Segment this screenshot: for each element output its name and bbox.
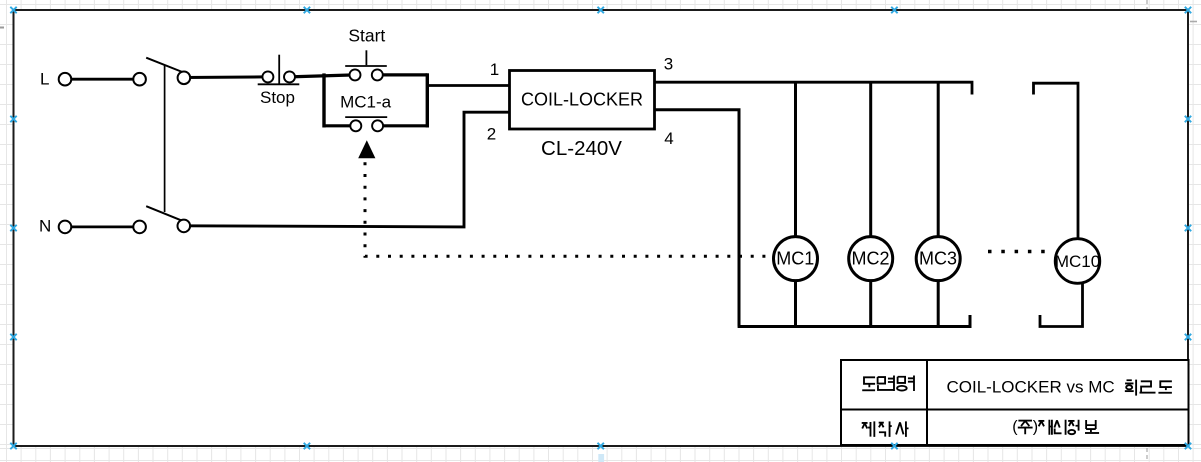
svg-text:Start: Start	[348, 26, 385, 46]
ellipsis dots between MC3 and MC10	[988, 250, 1045, 253]
title block value: COIL-LOCKER vs MC 회로도	[947, 378, 1172, 397]
svg-text:): )	[1033, 419, 1038, 436]
drag guide highlight	[598, 454, 604, 462]
wire: Start to right bar	[377, 73, 427, 76]
coil MC10	[1055, 239, 1100, 284]
contact MC1-a bar	[345, 116, 387, 118]
relay module U1 COIL-LOCKER	[510, 71, 655, 130]
wire: N terminal link	[65, 225, 140, 228]
pushbutton Start (NO) terminals	[350, 69, 361, 80]
terminal L2	[133, 73, 146, 86]
terminal N1	[59, 221, 72, 234]
svg-text:1: 1	[490, 60, 499, 79]
wire: pin 4 to bottom rail	[655, 110, 971, 327]
wire: MC1-a to right bar	[378, 124, 428, 127]
wire: L terminal link	[65, 78, 140, 81]
title block label 제작사	[862, 421, 909, 437]
svg-text:MC3: MC3	[919, 249, 957, 269]
svg-text:COIL-LOCKER vs MC: COIL-LOCKER vs MC	[947, 378, 1115, 397]
pushbutton Stop plunger	[278, 55, 280, 84]
wire: block to pin 1	[427, 84, 509, 87]
page break dashed line	[1146, 0, 1148, 462]
pushbutton Stop (NC) terminals	[262, 71, 273, 82]
wire: left bar to MC1-a	[324, 124, 351, 127]
svg-text:2: 2	[487, 125, 496, 144]
coil MC2	[849, 237, 893, 281]
wire: MC10 bottom bracket	[1040, 284, 1083, 327]
wire: Stop to Start	[290, 75, 356, 77]
switch SW1 tie rod	[164, 65, 166, 213]
wire: N rail to pin 2 riser	[184, 112, 510, 227]
svg-text:4: 4	[664, 129, 673, 148]
node: parallel block right bar	[426, 73, 429, 127]
wire: L pole to Stop	[184, 75, 264, 79]
svg-text:MC1: MC1	[776, 249, 814, 269]
svg-text:(: (	[1012, 419, 1018, 436]
switch SW1 blade (L pole)	[146, 58, 183, 73]
pushbutton Stop contact bar	[258, 83, 300, 85]
coil MC1	[774, 237, 818, 281]
wire: MC2 branch	[869, 82, 872, 326]
svg-text:L: L	[40, 70, 49, 89]
terminal N3 (switch right contact)	[178, 220, 191, 233]
title block value: (주)재신정보	[1012, 419, 1099, 436]
node: parallel block left bar	[322, 73, 325, 127]
title block label 도면명	[862, 376, 914, 392]
contact MC1-a terminals	[350, 120, 361, 131]
svg-text:N: N	[39, 217, 51, 236]
terminal N2	[133, 221, 146, 234]
svg-text:MC10: MC10	[1055, 252, 1100, 271]
pushbutton Start contact bar	[345, 65, 387, 67]
annotation arrow (dotted) from MC1 row to MC1-a	[365, 162, 766, 256]
coil MC3	[916, 237, 960, 281]
svg-text:Stop: Stop	[260, 88, 295, 107]
terminal L1	[59, 73, 72, 86]
switch SW1 blade (N pole)	[146, 206, 183, 221]
svg-text:COIL-LOCKER: COIL-LOCKER	[521, 89, 643, 109]
svg-text:3: 3	[664, 55, 673, 74]
svg-text:MC1-a: MC1-a	[340, 93, 392, 112]
terminal L3 (switch right contact)	[178, 72, 191, 85]
wire: pin 3 top rail	[655, 82, 973, 94]
pushbutton Start plunger	[365, 50, 367, 65]
wire: MC10 top bracket	[1034, 83, 1079, 238]
svg-text:CL-240V: CL-240V	[541, 137, 622, 160]
wire: MC3 branch	[937, 82, 940, 326]
svg-text:MC2: MC2	[851, 249, 889, 269]
title block table	[841, 360, 1189, 445]
wire: MC1 branch	[794, 82, 797, 326]
